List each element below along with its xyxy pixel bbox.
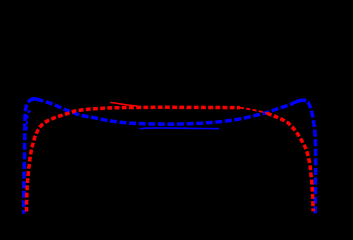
red dashed density curve (right descent) (267, 113, 313, 211)
blue apex solid segment (right plateau) (296, 100, 306, 101)
red thin dashed section (right shoulder of plateau) (240, 108, 267, 114)
thin red solid curve (left shoulder) (110, 102, 137, 106)
thin blue dashed fragment (left edge) (27, 111, 31, 132)
blue apex solid segment (left peak) (29, 99, 40, 102)
blue dashed density curve (main) (24, 99, 316, 214)
thin blue solid curve (middle section) (139, 127, 219, 130)
red dashed density curve (left branch and plateau) (27, 107, 240, 211)
